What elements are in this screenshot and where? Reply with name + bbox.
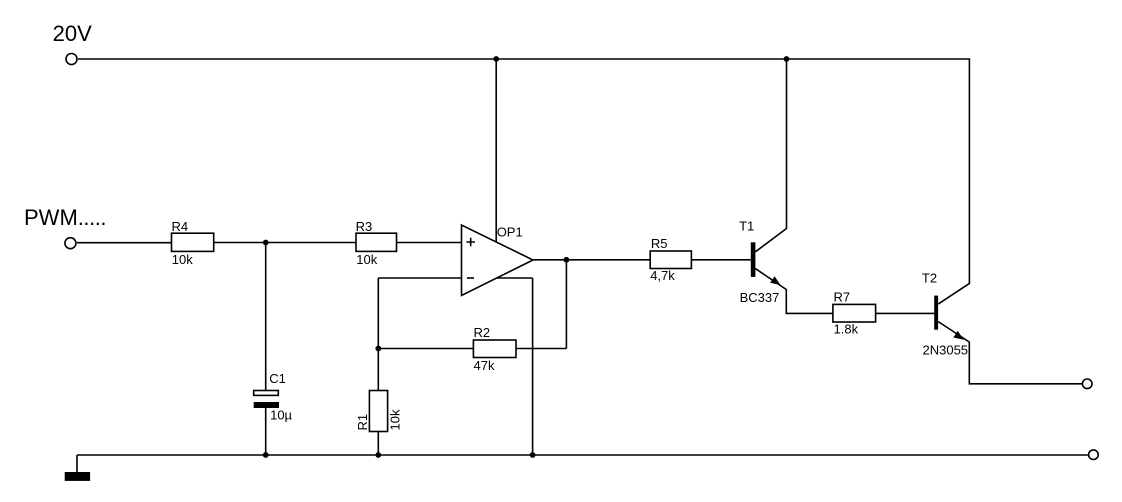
svg-text:R4: R4 [172,219,189,234]
svg-text:OP1: OP1 [497,224,523,239]
svg-text:10k: 10k [388,409,403,430]
svg-text:4,7k: 4,7k [650,268,675,283]
svg-text:2N3055: 2N3055 [923,343,969,358]
svg-text:R2: R2 [474,325,491,340]
svg-text:R5: R5 [651,236,668,251]
svg-text:BC337: BC337 [740,290,780,305]
svg-text:PWM.....: PWM..... [24,205,106,230]
svg-text:T2: T2 [922,271,937,286]
svg-text:1.8k: 1.8k [834,321,859,336]
svg-text:R1: R1 [355,414,370,431]
svg-text:R7: R7 [834,290,851,305]
svg-text:R3: R3 [356,219,373,234]
svg-text:20V: 20V [53,21,92,46]
svg-text:T1: T1 [739,219,754,234]
svg-text:10µ: 10µ [270,408,292,423]
svg-text:10k: 10k [356,252,377,267]
svg-text:C1: C1 [269,371,286,386]
svg-text:10k: 10k [172,252,193,267]
svg-text:47k: 47k [474,358,495,373]
